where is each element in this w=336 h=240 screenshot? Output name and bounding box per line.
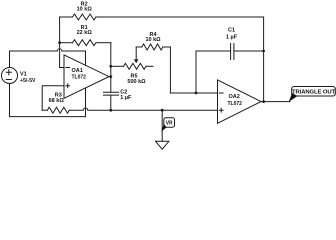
node VR drop wire [161,110,163,141]
wire: OA1 non-inverting input row [42,86,64,111]
wire: R1 row left segment [60,42,73,44]
junction dot: C2 on bottom rail [109,109,112,112]
wire: R5 right stub [146,65,153,67]
junction dot: C1 on feedback vertical [262,50,265,53]
junction dot: VR on bottom rail [161,109,164,112]
OA1 inverting pin mark [66,67,70,69]
svg-text:OA2: OA2 [229,94,240,100]
resistor R4 [142,44,163,50]
V1 plus mark [6,70,11,75]
wire: R4 right lead [163,46,171,48]
resistor R3 [47,107,69,113]
OA2 inverting pin mark [219,92,223,94]
wire: OA1 V- stub [85,88,87,117]
wire: R4 to OA2 inverting vertical [169,47,171,93]
svg-text:TL072: TL072 [228,101,243,107]
junction dot: C1 on OA2 inverting row [195,92,198,95]
OA1 non-inverting pin mark [66,84,70,88]
wire: V+ supply run with hop over inverting branch [10,49,86,51]
capacitor C2 bottom lead [110,95,112,110]
resistor R1 [73,40,97,46]
wire: OA2 inverting row [170,92,217,94]
wire: inverting branch vertical [59,17,61,68]
flag TRIANGLE OUT [292,87,336,97]
wire: R5 left lead [111,65,124,67]
capacitor C1 left lead [196,51,231,93]
voltage source V1 [2,68,18,84]
svg-text:C1: C1 [228,27,235,33]
svg-text:1 µF: 1 µF [226,34,238,40]
wire: OA1 V+ stub [85,51,87,65]
wire: output feedback vertical [263,17,265,102]
wire: V- return run [10,116,86,118]
svg-text:TRIANGLE OUT: TRIANGLE OUT [292,90,335,96]
wire: top feedback rail right segment [96,16,264,18]
svg-text:OA1: OA1 [72,68,83,74]
R5 wiper arrowhead [134,59,139,63]
junction dot: R1 tap on inverting branch [58,41,61,44]
svg-text:VR: VR [166,120,173,126]
wire: R4 left lead [136,46,142,48]
wire: OA2 output [261,101,290,103]
capacitor C1 plates [231,44,234,60]
wire: V1 top lead [9,51,11,68]
wire: top feedback rail left segment [60,16,73,18]
svg-text:10 kΩ: 10 kΩ [77,6,93,12]
junction dot: R5 tap on output node [109,65,112,68]
wire: bottom rail left segment [42,109,47,111]
wire: R5 wiper vertical [135,47,137,60]
flag VR [164,118,175,127]
resistor R2 [73,14,97,20]
svg-text:68 kΩ: 68 kΩ [49,98,65,104]
capacitor C1 right lead [234,50,264,52]
svg-text:10 kΩ: 10 kΩ [145,37,161,43]
wire: OA1 inverting input stub [60,67,64,69]
svg-text:+5/-5V: +5/-5V [20,78,36,84]
op-amp OA1 [64,55,109,98]
wire: R1 row right segment [96,42,111,44]
wire: V1 bottom lead [9,84,11,117]
svg-text:TL072: TL072 [72,74,87,80]
ground symbol [156,141,169,149]
capacitor C2 plates [104,92,119,95]
op-amp OA2 [218,80,262,123]
capacitor C2 top lead [110,77,112,93]
svg-text:500 kΩ: 500 kΩ [127,79,146,85]
svg-text:22 kΩ: 22 kΩ [77,30,93,36]
wire: OA1 output node vertical [110,43,112,77]
junction dot: OA1 output [109,75,112,78]
svg-text:1 µF: 1 µF [120,95,132,101]
junction dot: OA2 output node [262,100,265,103]
V1 minus mark [6,79,11,81]
wire: bottom rail with hop over V- stub [69,108,217,110]
svg-text:V1: V1 [20,72,27,78]
potentiometer R5 [124,63,147,69]
OA2 non-inverting pin mark [219,108,223,112]
wire: OA1 output stub [109,76,111,78]
